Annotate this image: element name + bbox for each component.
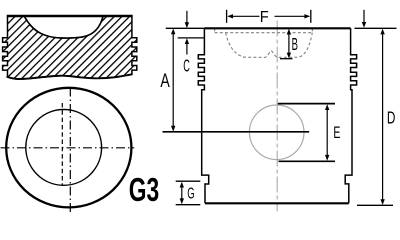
- cross-section bottom edge (thick wavy): [7, 74, 133, 79]
- piston top edge: [204, 27, 350, 29]
- svg-text:E: E: [333, 124, 340, 142]
- down arrow above top line (left): [185, 11, 189, 28]
- bowl hidden outline: left riser: [214, 28, 216, 32]
- C reference line: [178, 37, 204, 39]
- svg-text:D: D: [387, 107, 396, 127]
- svg-text:F: F: [260, 9, 269, 26]
- E top reference line: [278, 103, 335, 105]
- bottom view inner circle (bowl rim): [26, 109, 102, 185]
- E bottom reference line: [279, 160, 336, 162]
- bowl hidden outline: right riser: [311, 28, 313, 32]
- bowl hidden outline: omega profile: [226, 33, 313, 58]
- svg-text:C: C: [183, 55, 190, 75]
- D bottom reference line: [357, 204, 393, 206]
- side view vertical centerline (gray): [276, 21, 278, 212]
- piston bottom edge: [205, 202, 349, 204]
- dimension E arrow: [325, 104, 329, 161]
- G bottom reference line: [176, 204, 201, 206]
- cross-section bowl profile line: [24, 16, 103, 38]
- bottom view offset bowl axis dashed line: [61, 103, 63, 186]
- B bottom reference line: [280, 58, 293, 60]
- A bottom reference line (through pin center): [163, 131, 310, 133]
- C up arrow: [185, 38, 189, 54]
- svg-text:B: B: [292, 34, 298, 54]
- top reference line left: [166, 27, 205, 29]
- piston side view outline: [198, 28, 208, 203]
- dimension D line: [380, 29, 384, 205]
- cross-section top edge (thick): [7, 15, 133, 17]
- bottom view horizontal centerline: [1, 147, 135, 149]
- bowl hidden outline: rim line (dashed gray): [215, 32, 313, 34]
- piston cross-section body (hatched): [3, 16, 137, 79]
- dimension B arrow: [287, 29, 291, 59]
- svg-text:G: G: [187, 186, 194, 203]
- dimension A line: [171, 29, 175, 132]
- svg-text:A: A: [160, 70, 169, 92]
- dimension G arrow: [180, 182, 184, 205]
- svg-text:G3: G3: [129, 171, 159, 208]
- F dimension ticks: [226, 10, 228, 23]
- F dimension line with outward arrows: [227, 14, 310, 18]
- bottom view outer circle: [6, 88, 131, 208]
- down arrow above top line (right): [362, 10, 366, 28]
- pin bore circle (gray): [249, 105, 304, 160]
- bottom view vertical centerline: [69, 88, 71, 213]
- G top reference line: [176, 180, 201, 182]
- top reference line right: [355, 27, 397, 29]
